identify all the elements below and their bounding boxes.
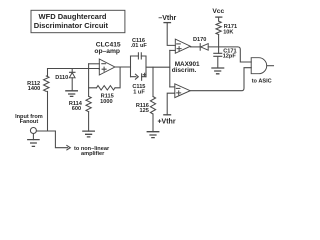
capacitor C116	[131, 55, 147, 57]
resistor R112	[47, 69, 49, 132]
wire AND output	[267, 65, 274, 67]
input connector	[30, 128, 36, 134]
wire comp2 plus from +Vthr	[167, 93, 175, 115]
wire signal to op-amp + input	[48, 68, 100, 71]
wire cap network to MAX901 node	[146, 66, 170, 68]
arrow chevron	[67, 146, 71, 150]
diode D170 (points left)	[199, 44, 201, 51]
wire comp2 output to AND gate	[190, 68, 251, 91]
svg-text:Fanout: Fanout	[20, 119, 39, 125]
svg-text:to ASIC: to ASIC	[252, 78, 272, 84]
ground (C171)	[211, 68, 224, 74]
node: signal split column	[169, 50, 171, 87]
svg-text:discrim.: discrim.	[172, 67, 197, 74]
wire R171 to node	[218, 35, 220, 54]
svg-text:125: 125	[140, 108, 149, 114]
wire D170 to node and to AND gate	[208, 47, 251, 62]
ground (input connector)	[32, 134, 34, 140]
resistor R116	[152, 67, 154, 96]
ground (D110)	[65, 91, 78, 97]
wire feedback bottom + right vertical	[89, 67, 121, 88]
resistor R115	[97, 86, 116, 90]
svg-text:D110: D110	[55, 75, 68, 81]
svg-text:D170: D170	[193, 37, 206, 43]
svg-text:12pF: 12pF	[223, 54, 237, 60]
ground (R114)	[82, 131, 95, 137]
wire to non-linear amplifier	[55, 131, 67, 148]
resistor R171	[216, 21, 221, 34]
wire input node	[36, 130, 55, 132]
comparator U2a MAX901	[175, 39, 190, 53]
svg-text:600: 600	[72, 106, 81, 112]
svg-text:–Vthr: –Vthr	[158, 15, 176, 22]
op-amp U1 CLC415	[99, 59, 115, 75]
title box	[31, 10, 125, 32]
svg-text:+Vthr: +Vthr	[157, 119, 175, 126]
wire R116 to ground	[152, 114, 154, 132]
capacitor C115 (polarized)	[131, 76, 147, 78]
wire op-amp output	[115, 66, 131, 68]
ground (R116)	[147, 132, 160, 138]
cap network loop verticals	[131, 56, 147, 77]
svg-text:WFD Daughtercard: WFD Daughtercard	[39, 12, 107, 21]
svg-text:.01 uF: .01 uF	[131, 43, 148, 49]
AND gate	[251, 58, 266, 74]
wire comp2 minus input	[170, 86, 175, 88]
comparator U2b MAX901	[175, 84, 190, 98]
svg-text:10K: 10K	[223, 30, 233, 36]
svg-text:1400: 1400	[28, 86, 40, 92]
svg-text:1 uF: 1 uF	[133, 89, 145, 95]
capacitor C171	[214, 53, 222, 68]
wire op-amp minus input	[89, 63, 100, 65]
svg-text:amplifier: amplifier	[81, 151, 105, 157]
svg-text:Discriminator Circuit: Discriminator Circuit	[34, 21, 109, 30]
svg-text:Vcc: Vcc	[212, 8, 224, 15]
wire comp1 plus input	[170, 49, 176, 51]
diode D110	[70, 69, 76, 91]
svg-text:op–amp: op–amp	[94, 48, 120, 55]
wire feedback left vertical	[88, 64, 90, 97]
wire R114 to ground	[88, 112, 90, 131]
svg-text:1000: 1000	[100, 99, 112, 105]
wire comp1 output	[190, 46, 200, 48]
resistor R114	[86, 96, 91, 111]
